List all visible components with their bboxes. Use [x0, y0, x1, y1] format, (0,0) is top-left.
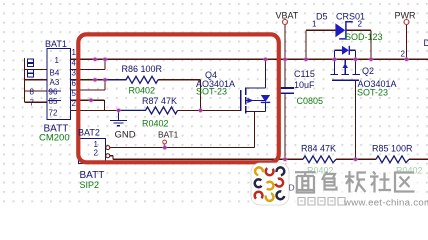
svg-text:SIP2: SIP2	[80, 180, 100, 190]
svg-text:R0402: R0402	[129, 86, 156, 96]
svg-text:www.eet-china.com: www.eet-china.com	[343, 198, 428, 208]
svg-text:D: D	[289, 183, 295, 193]
svg-text:1: 1	[312, 20, 317, 29]
svg-text:1: 1	[72, 48, 77, 57]
svg-text:D5: D5	[316, 12, 328, 22]
svg-text:Q2: Q2	[362, 66, 374, 76]
svg-text:5: 5	[72, 89, 77, 98]
svg-text:CM200: CM200	[39, 133, 70, 144]
svg-text:4: 4	[72, 58, 77, 67]
svg-text:VBAT: VBAT	[276, 11, 299, 21]
svg-text:A3: A3	[50, 78, 60, 87]
svg-text:8: 8	[30, 87, 35, 96]
svg-text:72: 72	[49, 109, 58, 118]
svg-text:SOT-23: SOT-23	[357, 88, 388, 98]
svg-text:2: 2	[94, 149, 99, 158]
svg-text:R87 47K: R87 47K	[142, 96, 177, 106]
svg-text:7: 7	[30, 98, 35, 107]
svg-text:R85 100R: R85 100R	[372, 144, 413, 154]
svg-text:2: 2	[72, 99, 77, 108]
svg-text:3: 3	[72, 69, 77, 78]
svg-text:BAT1: BAT1	[45, 39, 67, 49]
svg-text:D: D	[424, 38, 428, 48]
svg-text:10uF: 10uF	[294, 80, 315, 90]
svg-text:96: 96	[49, 87, 58, 96]
svg-text:BAT2: BAT2	[78, 128, 100, 138]
svg-text:R84 47K: R84 47K	[301, 144, 336, 154]
svg-text:C0805: C0805	[297, 96, 324, 106]
svg-text:R86 100R: R86 100R	[122, 64, 163, 74]
svg-text:SOD-123: SOD-123	[345, 32, 383, 42]
svg-text:GND: GND	[115, 130, 136, 141]
svg-text:85: 85	[49, 97, 58, 106]
svg-text:B4: B4	[50, 69, 60, 78]
svg-text:R0402: R0402	[142, 119, 169, 129]
svg-text:BAT1: BAT1	[158, 130, 179, 140]
svg-text:2: 2	[358, 20, 363, 29]
svg-text:1: 1	[55, 56, 60, 65]
svg-text:6: 6	[72, 79, 77, 88]
svg-text:PWR: PWR	[395, 11, 416, 21]
svg-text:SOT-23: SOT-23	[196, 87, 227, 97]
svg-text:2: 2	[401, 50, 406, 59]
svg-text:C115: C115	[294, 69, 315, 79]
